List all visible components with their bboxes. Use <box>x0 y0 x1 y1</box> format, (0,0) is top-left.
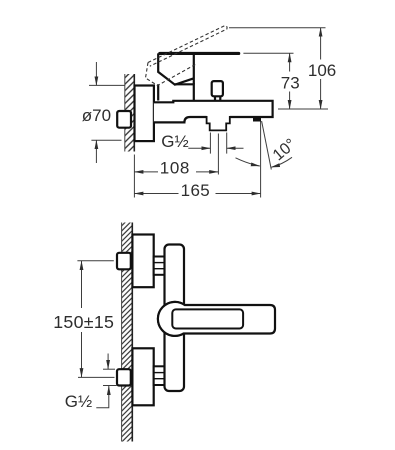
mixer body (side view) <box>154 101 273 131</box>
wall escutcheon (upper, side view) <box>135 86 154 142</box>
svg-text:165: 165 <box>181 181 211 200</box>
body column (front view) <box>165 245 185 392</box>
wall extension line (108/165) <box>133 155 135 198</box>
diverter knob <box>212 81 223 100</box>
lever handle (dashed, raised position) <box>146 26 228 86</box>
spout aerator bump <box>253 117 261 122</box>
wall escutcheon (bottom) <box>132 348 153 405</box>
svg-text:ø70: ø70 <box>82 106 111 125</box>
dimension G1/2 (lower) <box>96 354 116 408</box>
dimension ø70 <box>89 62 125 163</box>
dimension 165 <box>134 122 260 198</box>
lever inner cutout <box>172 309 243 328</box>
wall (hatched) <box>125 74 135 152</box>
svg-text:73: 73 <box>281 74 300 93</box>
union nut (bottom) <box>154 366 165 385</box>
valve circle <box>158 302 192 336</box>
cartridge base ring <box>158 84 194 100</box>
inlet union square (upper) <box>117 111 131 128</box>
svg-text:G½: G½ <box>161 132 188 151</box>
inlet square (bottom) <box>117 369 131 385</box>
union nut (top) <box>154 257 165 275</box>
common lower extension line for 73/106 <box>278 108 328 110</box>
dimension 106 <box>229 28 326 109</box>
10 degree spout angle <box>236 121 293 170</box>
lever (front view) <box>158 302 275 336</box>
svg-text:106: 106 <box>308 61 336 80</box>
wall escutcheon (top) <box>132 235 153 288</box>
svg-text:108: 108 <box>160 159 190 178</box>
dimension 73 <box>243 53 293 109</box>
dimension 108 <box>134 171 218 173</box>
wall (hatched, lower) <box>121 223 132 442</box>
svg-text:150±15: 150±15 <box>53 312 114 332</box>
inlet square (top) <box>117 253 131 269</box>
svg-text:10°: 10° <box>270 136 299 165</box>
outlet centreline / 108 extension <box>217 134 219 175</box>
lever handle (solid, horizontal position) <box>158 52 240 85</box>
dimension 150±15 <box>77 261 114 378</box>
dimension G1/2 (upper) <box>188 133 243 154</box>
svg-text:G½: G½ <box>65 392 92 411</box>
